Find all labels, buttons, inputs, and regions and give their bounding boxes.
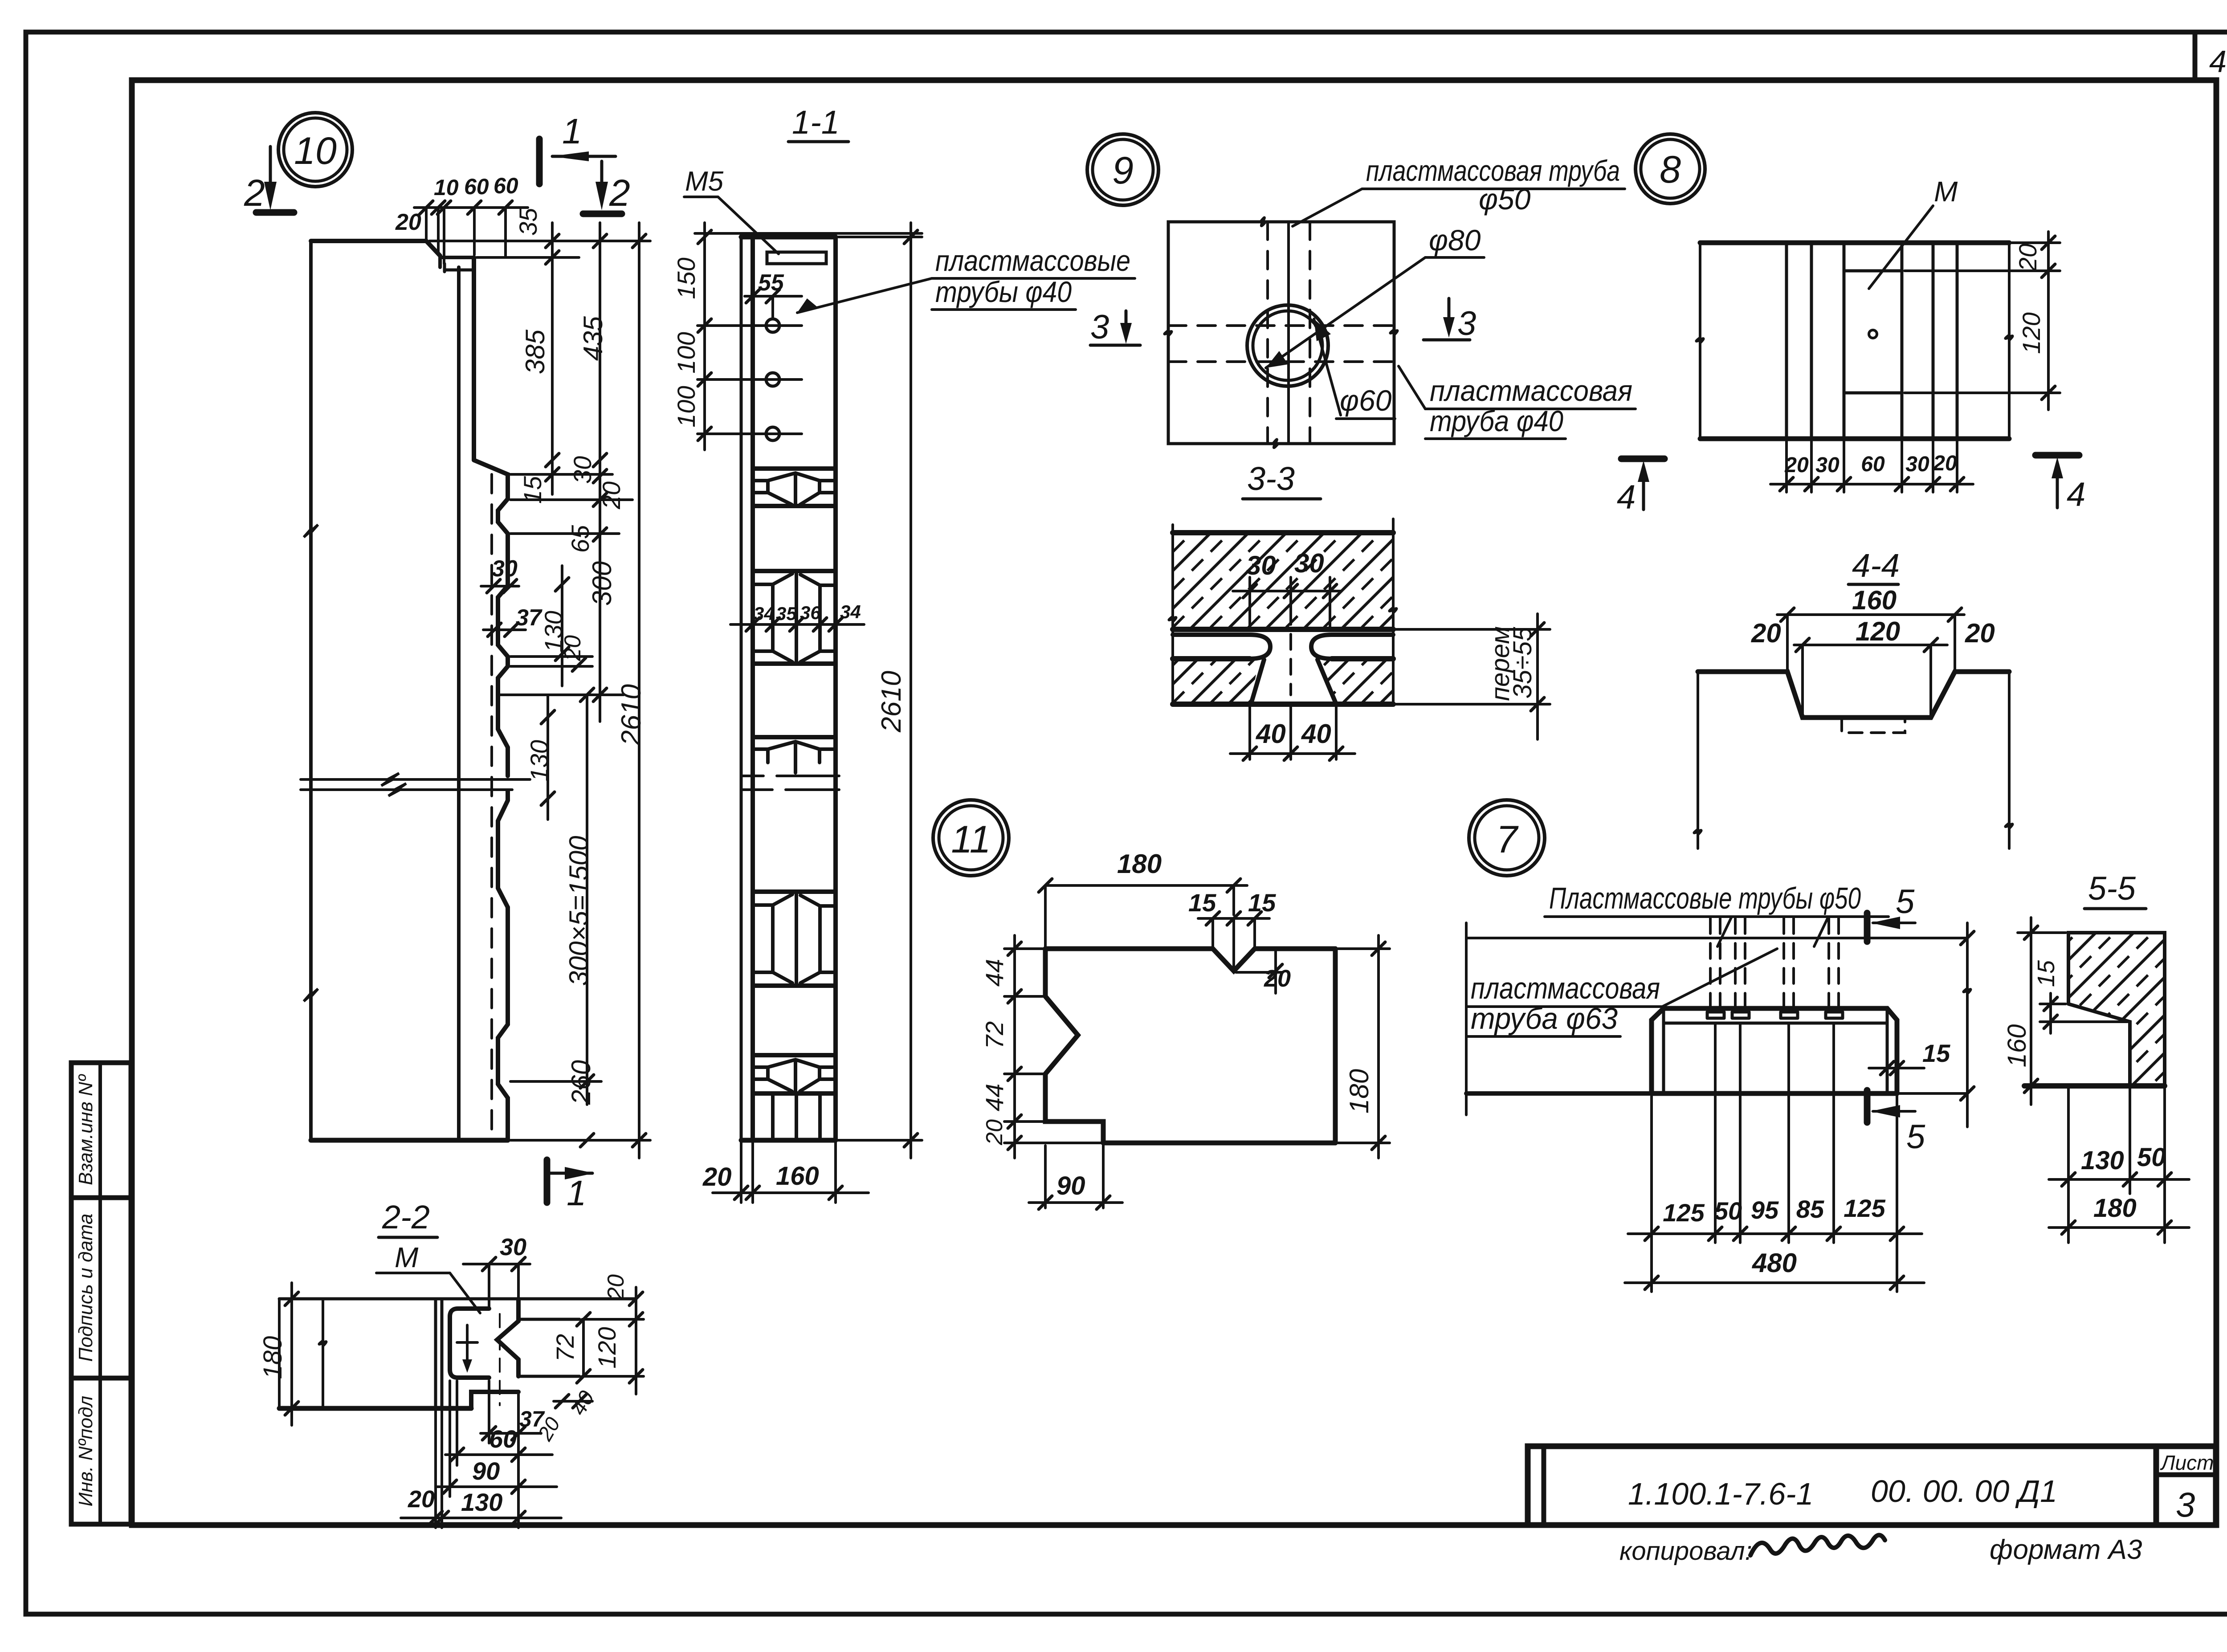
view7 tube A2 dashed [1734, 918, 1737, 1008]
title block Лист cell divider [2154, 1446, 2159, 1525]
svg-text:30: 30 [568, 456, 596, 484]
svg-text:30: 30 [1294, 548, 1324, 578]
svg-text:36: 36 [800, 602, 821, 623]
3-3 right edge jog [1389, 608, 1396, 613]
dim 2610 column [838, 236, 922, 238]
column bottom edge [741, 1138, 836, 1143]
extension lines right of profile [510, 473, 612, 476]
section mark 5 top [1864, 913, 1871, 942]
svg-text:3: 3 [2176, 1485, 2195, 1524]
view11 top edge [1045, 946, 1213, 951]
svg-text:8: 8 [1660, 148, 1681, 191]
2-2 tongue outline [516, 1299, 521, 1321]
svg-text:20: 20 [1965, 618, 1995, 648]
5-5 hatched block [2068, 933, 2165, 1086]
svg-text:трубы φ40: трубы φ40 [935, 275, 1072, 308]
callout circle 8 [1636, 134, 1705, 204]
5-5 step chamfer [2068, 1004, 2130, 1086]
2-2 dim 60 [445, 1453, 552, 1456]
svg-text:30: 30 [492, 556, 518, 582]
svg-text:пластмассовые: пластмассовые [935, 244, 1130, 277]
keyway band B1 [753, 569, 836, 573]
view9 left edge jog [1164, 330, 1171, 336]
3-3 slot top line [1173, 627, 1393, 632]
svg-text:пластмассовая труба: пластмассовая труба [1366, 154, 1620, 187]
4-4 right edge [2008, 672, 2011, 848]
stamp cell divider 1 [71, 1195, 131, 1200]
view10 hidden dashed line [490, 474, 493, 1131]
svg-text:5-5: 5-5 [2088, 870, 2136, 907]
svg-text:М: М [1934, 175, 1958, 208]
svg-text:пластмассовая: пластмассовая [1471, 971, 1660, 1005]
svg-text:пластмассовая: пластмассовая [1430, 374, 1632, 407]
3-3 left edge jog [1169, 616, 1176, 622]
view10 inner line [457, 267, 461, 1140]
view7 left edge [1465, 923, 1468, 1115]
svg-text:30: 30 [1905, 453, 1929, 476]
pipe circle 1 [766, 319, 779, 332]
bottom strip verticals [771, 1093, 775, 1140]
svg-text:формат А3: формат А3 [1990, 1534, 2142, 1565]
view9 center vertical line [1287, 222, 1290, 444]
svg-text:120: 120 [2017, 312, 2045, 354]
view9 pipe circle inner [1253, 311, 1322, 380]
section mark 5 bottom [1864, 1090, 1871, 1122]
sheet number cell divider [2193, 32, 2198, 80]
svg-text:40: 40 [1256, 719, 1286, 749]
view9 dashed vertical tube lines [1266, 222, 1269, 444]
view8 bottom dims 20 30 60 30 20 [1785, 441, 1788, 492]
2-2 extension verticals [434, 1411, 437, 1528]
keyway band B2 [753, 889, 836, 894]
view11 right edge [1333, 949, 1338, 1143]
view10 break band [301, 773, 530, 786]
svg-text:160: 160 [1852, 585, 1897, 615]
2-2 bottom edge [279, 1406, 471, 1411]
svg-text:20: 20 [982, 1119, 1007, 1146]
5-5 left dim chain 15 160 [2040, 1003, 2066, 1005]
pocket dim 30 [481, 585, 519, 587]
svg-text:15: 15 [2033, 960, 2060, 987]
2-2 dim 37 [481, 1432, 541, 1435]
keyway band A1 [753, 466, 836, 471]
dim 130 lower [547, 695, 549, 820]
svg-text:20: 20 [1264, 965, 1291, 992]
svg-text:20: 20 [702, 1163, 732, 1191]
3-3 left edge [1171, 525, 1174, 704]
svg-text:10: 10 [434, 175, 459, 200]
dim 300 chain [593, 688, 607, 702]
3-3 dim 30 30 [1233, 590, 1342, 592]
view7 top back edge [1466, 937, 1967, 939]
view10 top chamfer [426, 241, 440, 256]
view11 dim 90 [1044, 1146, 1047, 1208]
callout circle 9 [1087, 134, 1158, 205]
svg-text:9: 9 [1112, 149, 1134, 192]
svg-text:30: 30 [1815, 453, 1840, 477]
svg-text:М5: М5 [685, 166, 724, 197]
view11 bottom edge [1103, 1141, 1335, 1146]
view8 right dim 20 120 [2012, 241, 2060, 244]
dim chain A 385 [551, 223, 554, 494]
view10 front profile [474, 460, 508, 776]
svg-text:60: 60 [464, 174, 489, 199]
svg-text:20: 20 [1933, 452, 1957, 475]
svg-text:300: 300 [587, 561, 617, 606]
svg-text:120: 120 [1856, 616, 1900, 646]
dim 300x5=1500 chain [586, 695, 588, 1105]
view9 pipe circle outer [1247, 305, 1328, 386]
svg-text:160: 160 [776, 1162, 819, 1191]
view9 dashed horizontal tube lines [1168, 324, 1394, 327]
view7 tube B2 dashed [1827, 918, 1830, 1008]
svg-text:Лист: Лист [2160, 1451, 2214, 1474]
pipe circle 2 [766, 373, 779, 386]
svg-text:385: 385 [520, 329, 550, 374]
3-3 top edge [1173, 530, 1393, 535]
pipe circle 3 [766, 427, 779, 441]
svg-text:11: 11 [951, 818, 991, 861]
4-4 dashed insert [1842, 718, 1905, 733]
bottom dim 20 160 [740, 1140, 742, 1203]
dim 260 [580, 1134, 594, 1147]
svg-text:48: 48 [2209, 44, 2227, 79]
svg-text:44: 44 [980, 1084, 1008, 1111]
svg-text:60: 60 [1861, 453, 1885, 476]
circle crosshair lines [697, 324, 802, 327]
M5 slot rect [767, 252, 826, 264]
dim chain B 435 [599, 223, 601, 722]
dim 2610 chain [638, 223, 640, 1158]
2-2 top edge [279, 1297, 636, 1301]
svg-text:15: 15 [1922, 1039, 1950, 1067]
dim 20 [572, 658, 586, 671]
view9 bottom edge jog [1273, 439, 1277, 448]
svg-text:2610: 2610 [616, 684, 647, 746]
view7 bottom dim extensions [1650, 1096, 1653, 1292]
svg-text:труба φ40: труба φ40 [1430, 404, 1563, 437]
view11 dim 180 right [1338, 947, 1390, 950]
3-3 dovetail right wall [1317, 660, 1335, 702]
view9 top edge jog [1260, 217, 1265, 226]
view8 bottom edge [1700, 436, 2009, 441]
view7 boss inner lines [1664, 1008, 1887, 1023]
view10 bottom edge [311, 1138, 508, 1143]
svg-text:2-2: 2-2 [382, 1199, 430, 1236]
2-2 dim 180 [278, 1299, 281, 1408]
column break band [741, 776, 839, 790]
view10 top face ledge [440, 256, 474, 259]
section mark 2 top [269, 147, 272, 182]
svg-text:60: 60 [489, 1425, 517, 1453]
svg-text:35: 35 [776, 603, 797, 624]
view10 top dim line 10 60 60 [414, 206, 528, 209]
5-5 outline [2068, 933, 2165, 1086]
svg-text:20: 20 [408, 1486, 435, 1513]
view11 V notch [1213, 949, 1255, 971]
2-2 dashed centerline [499, 1314, 501, 1405]
2-2 key notch [497, 1321, 518, 1359]
view8 left edge [1699, 243, 1701, 439]
2-2 dim 72 [582, 1319, 585, 1376]
column outer left line [740, 237, 743, 1140]
svg-text:φ50: φ50 [1479, 183, 1531, 216]
svg-text:150: 150 [672, 257, 700, 299]
svg-text:Взам.инв Nº: Взам.инв Nº [75, 1074, 97, 1185]
svg-text:2610: 2610 [876, 671, 907, 733]
svg-text:180: 180 [258, 1336, 287, 1379]
3-3 hatched top block [1173, 533, 1393, 628]
column right line [833, 237, 838, 1140]
svg-text:φ60: φ60 [1340, 384, 1392, 417]
2-2 dim 40 [554, 1400, 592, 1403]
svg-text:20: 20 [1784, 453, 1809, 477]
svg-text:100: 100 [672, 332, 700, 373]
view7 dim 480 [1625, 1281, 1924, 1284]
svg-text:37: 37 [516, 605, 542, 631]
svg-text:40: 40 [567, 1387, 599, 1419]
dim 34 35 36 34 [730, 623, 864, 626]
svg-text:4: 4 [2067, 476, 2085, 514]
callout circle 10 [278, 113, 352, 187]
5-5 bottom edge [2024, 1083, 2165, 1089]
svg-text:φ80: φ80 [1429, 224, 1481, 257]
view11 left dim chain 44 72 44 20 [1004, 947, 1043, 950]
view10 back face line [309, 241, 313, 1140]
view10 upper face [472, 257, 476, 460]
2-2 bottom step [471, 1392, 518, 1408]
svg-text:95: 95 [1751, 1196, 1779, 1224]
3-3 bottom edge [1173, 702, 1393, 707]
section mark 4 left [1621, 456, 1664, 462]
svg-text:50: 50 [2137, 1143, 2166, 1172]
svg-text:180: 180 [1117, 849, 1162, 879]
svg-text:1: 1 [562, 111, 582, 151]
section mark 3 right [1423, 339, 1470, 342]
svg-text:30: 30 [1246, 551, 1276, 580]
view7 tube collars [1707, 1012, 1724, 1018]
svg-text:Инв. Nºподл: Инв. Nºподл [75, 1396, 97, 1507]
title block left narrow cell [1542, 1446, 1546, 1525]
view11 dim 20 notch [1274, 949, 1277, 993]
svg-text:2: 2 [244, 172, 265, 214]
svg-text:2: 2 [609, 172, 630, 214]
view8 M recess bottom [1844, 392, 1902, 395]
svg-text:44: 44 [980, 959, 1008, 987]
svg-text:1-1: 1-1 [792, 104, 840, 141]
break jog on back line lower [304, 989, 318, 1001]
view9 plan outline [1168, 222, 1394, 444]
svg-text:00. 00. 00 Д1: 00. 00. 00 Д1 [1871, 1474, 2057, 1509]
svg-text:20: 20 [1751, 618, 1781, 648]
svg-text:125: 125 [1844, 1194, 1885, 1222]
callout circle 11 [933, 800, 1009, 876]
svg-text:120: 120 [593, 1327, 621, 1368]
svg-text:60: 60 [494, 173, 518, 198]
5-5 bottom dims 130 50 180 [2067, 1089, 2070, 1243]
column top edge [741, 235, 836, 240]
svg-text:7: 7 [1496, 818, 1519, 861]
top extension to chains [429, 240, 650, 242]
3-3 dim 40 40 [1248, 706, 1251, 759]
2-2 wall lines [434, 1299, 437, 1408]
svg-text:300×5=1500: 300×5=1500 [564, 836, 594, 986]
section mark 1 bottom [544, 1160, 551, 1203]
callout circle 7 [1469, 800, 1545, 876]
view10 top face [311, 239, 426, 243]
svg-text:180: 180 [1344, 1069, 1374, 1114]
svg-text:180: 180 [2093, 1194, 2137, 1223]
svg-text:35: 35 [514, 208, 542, 236]
keyway band A3 [753, 1053, 836, 1057]
svg-text:1: 1 [567, 1173, 587, 1213]
svg-text:100: 100 [672, 386, 700, 427]
keyway band A2 half above break [753, 735, 836, 739]
column inner left line [750, 237, 755, 1140]
svg-text:4-4: 4-4 [1852, 547, 1900, 584]
view10 step vert [438, 256, 442, 267]
2-2 dim 90 [436, 1485, 557, 1488]
view8 right edge [2008, 243, 2011, 439]
svg-text:15: 15 [1188, 889, 1216, 917]
svg-text:72: 72 [980, 1021, 1008, 1049]
svg-text:труба φ63: труба φ63 [1471, 1002, 1618, 1036]
3-3 dovetail left wall [1252, 660, 1264, 702]
svg-text:65: 65 [566, 525, 594, 553]
view11 left profile [1045, 949, 1103, 1143]
view8 M recess top [1844, 269, 1902, 273]
2-2 anchor symbol [466, 1325, 469, 1359]
stamp middle divider [98, 1063, 102, 1524]
4-4 left edge [1697, 672, 1699, 848]
4-4 surface profile [1698, 672, 2009, 718]
left stamp column box [71, 1063, 131, 1524]
svg-text:72: 72 [551, 1334, 579, 1362]
3-3 left lip [1173, 635, 1270, 659]
svg-text:20: 20 [603, 1274, 629, 1301]
title block Лист header line [2156, 1473, 2216, 1477]
stamp cell divider 2 [71, 1376, 131, 1381]
2-2 dim 130 20 [401, 1517, 561, 1519]
svg-text:55: 55 [758, 270, 784, 296]
3-3 right lip [1311, 635, 1393, 659]
view8 rib lines [1785, 243, 1788, 439]
svg-text:90: 90 [1056, 1171, 1085, 1200]
svg-text:20: 20 [597, 481, 625, 510]
view7 bottom front edge [1466, 1091, 1652, 1096]
svg-text:копировал:: копировал: [1619, 1537, 1752, 1566]
3-3 right edge [1392, 519, 1395, 704]
break jog on back line upper [304, 525, 318, 537]
svg-text:125: 125 [1663, 1199, 1705, 1227]
3-3 hatched bottom right [1319, 660, 1393, 703]
view7 tube B1 dashed [1782, 918, 1785, 1008]
svg-text:М: М [395, 1241, 419, 1273]
svg-text:90: 90 [472, 1457, 500, 1485]
top extension line [695, 232, 922, 235]
svg-text:37: 37 [519, 1407, 545, 1432]
svg-text:40: 40 [1301, 719, 1331, 749]
section mark 1 top [536, 139, 543, 184]
svg-text:480: 480 [1752, 1248, 1797, 1278]
svg-text:130: 130 [461, 1488, 502, 1516]
svg-text:3: 3 [1090, 308, 1109, 346]
3-3 dim перем 35÷55 [1396, 628, 1550, 631]
svg-text:3: 3 [1457, 305, 1476, 343]
svg-text:1.100.1-7.6-1: 1.100.1-7.6-1 [1628, 1477, 1813, 1511]
view10 step hook [445, 264, 473, 272]
view7 centerlines below collars [1714, 1024, 1716, 1071]
signature scribble [1750, 1535, 1885, 1555]
dim 130 chain A [561, 566, 563, 686]
svg-text:35÷55: 35÷55 [1508, 627, 1537, 699]
view8 anchor hole [1869, 330, 1877, 338]
view7 right extent line [1966, 923, 1969, 1127]
svg-text:Пластмассовые трубы φ50: Пластмассовые трубы φ50 [1549, 881, 1861, 915]
4-4 extension lines [1786, 615, 1789, 672]
svg-text:3-3: 3-3 [1247, 460, 1295, 497]
svg-text:160: 160 [2003, 1024, 2031, 1068]
title block outline [1528, 1446, 2216, 1525]
svg-text:130: 130 [2081, 1146, 2124, 1175]
view7 tube A1 dashed [1709, 918, 1712, 1008]
svg-text:Подпись и дата: Подпись и дата [75, 1214, 97, 1362]
svg-text:20: 20 [395, 209, 421, 235]
section mark 2 right [600, 161, 604, 182]
3-3 hatched bottom left [1173, 660, 1259, 703]
2-2 right dim chain 20 120 [582, 1318, 644, 1321]
svg-text:34: 34 [840, 601, 861, 622]
view7 boss outline [1652, 1008, 1897, 1093]
svg-text:10: 10 [294, 130, 337, 172]
svg-text:435: 435 [578, 316, 608, 361]
svg-text:4: 4 [1617, 478, 1636, 516]
2-2 M pocket [450, 1309, 489, 1378]
view9 right edge jog [1390, 330, 1397, 335]
view8 top edge [1700, 241, 2009, 245]
svg-text:50: 50 [1714, 1197, 1742, 1225]
pocket dim 37 [483, 628, 526, 631]
svg-text:20: 20 [2014, 244, 2042, 272]
section mark 4 right [2035, 452, 2079, 459]
3-3 center dashed line [1289, 609, 1292, 695]
svg-text:5: 5 [1906, 1118, 1925, 1156]
svg-text:30: 30 [500, 1234, 526, 1260]
svg-text:130: 130 [525, 740, 553, 781]
left dim chain 150 100 100 [703, 223, 706, 450]
svg-text:85: 85 [1796, 1195, 1824, 1223]
view7 dim row 125 50 95 85 125 [1628, 1232, 1922, 1235]
svg-text:34: 34 [754, 603, 775, 624]
svg-text:5: 5 [1896, 883, 1915, 921]
